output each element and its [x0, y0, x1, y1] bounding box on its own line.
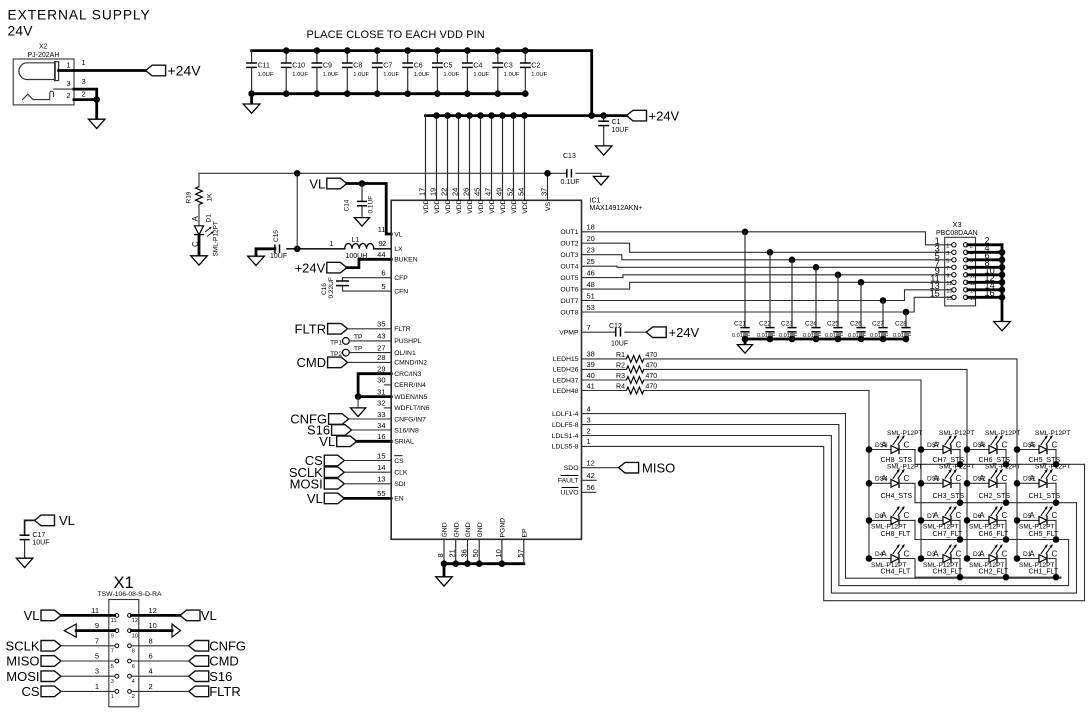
svg-text:21: 21: [448, 549, 457, 557]
capacitor C7: [372, 51, 400, 94]
pin label GND: [453, 522, 460, 537]
junction LED D3 anode: [918, 555, 925, 562]
capacitor C12: [609, 323, 646, 347]
pin label WDEN/IN5: [394, 394, 427, 401]
pin number 47: [484, 188, 493, 196]
wire X3 pin 10 to ground bus: [968, 273, 1002, 276]
pin number 11: [378, 225, 386, 234]
svg-text:C6: C6: [414, 63, 423, 70]
svg-text:42: 42: [587, 471, 595, 480]
svg-text:LEDH48: LEDH48: [553, 388, 579, 395]
svg-text:CMD: CMD: [209, 654, 239, 669]
ground IC: [436, 577, 453, 586]
svg-text:57: 57: [516, 549, 525, 557]
svg-text:A: A: [979, 511, 985, 520]
svg-text:C14: C14: [344, 199, 351, 211]
pin label CFN: [394, 288, 408, 295]
terminal +24V (VDD rail): [627, 108, 680, 123]
pin number 27: [377, 343, 385, 352]
pin label LEDH15: [553, 356, 579, 363]
wire VDD pin 17: [425, 116, 427, 201]
junction VDD rail: [521, 112, 528, 119]
svg-text:CFN: CFN: [394, 288, 408, 295]
label CH5_FLT: [1029, 531, 1060, 538]
svg-text:C26: C26: [850, 321, 862, 328]
svg-text:11: 11: [946, 281, 952, 287]
svg-text:+24V: +24V: [295, 260, 326, 275]
svg-text:CH1_STS: CH1_STS: [1029, 493, 1061, 500]
svg-text:C: C: [1052, 511, 1058, 520]
svg-text:4: 4: [132, 679, 135, 685]
pin number 7: [587, 323, 591, 332]
wire FLTR to IC: [348, 328, 392, 330]
svg-text:VDD: VDD: [423, 199, 430, 213]
off-page arrow left: [64, 624, 115, 637]
pin label VDD: [445, 199, 452, 213]
svg-text:C11: C11: [258, 63, 270, 70]
svg-text:14: 14: [377, 463, 385, 472]
svg-text:1: 1: [95, 682, 99, 691]
wire X1 pin 6: [131, 660, 188, 662]
terminal +24V (VPMP): [646, 325, 699, 340]
junction top bus: [344, 47, 351, 54]
capacitor C22: [757, 252, 776, 339]
pin number 32: [377, 399, 385, 408]
wire X2 pin2 to ground: [74, 100, 97, 120]
pin label VPMP: [559, 330, 579, 337]
connector X3 PBC08DAAN body: [936, 220, 978, 306]
svg-text:7: 7: [95, 636, 99, 645]
svg-text:LEDH26: LEDH26: [553, 367, 579, 374]
svg-text:A: A: [881, 549, 887, 558]
wire VDD pin 24: [458, 116, 460, 201]
wire LEDH to R4: [582, 390, 627, 392]
wire LED row 2 cathode bus: [915, 502, 1077, 504]
X3 pin 4: [964, 243, 990, 257]
junction bottom bus: [374, 90, 381, 97]
svg-text:L1: L1: [352, 237, 360, 244]
svg-text:31: 31: [377, 387, 385, 396]
svg-text:VDD: VDD: [478, 199, 485, 213]
X3 pin 10: [964, 266, 995, 280]
wire cap bus to ground: [744, 339, 747, 345]
svg-text:1.0UF: 1.0UF: [323, 72, 339, 78]
capacitor C15: [270, 230, 287, 261]
pin number 37: [540, 188, 549, 196]
X3 pin 5: [935, 251, 956, 265]
wire VL to IC: [344, 497, 391, 500]
junction OUT2 / C22: [767, 249, 774, 256]
capacitor C2: [520, 51, 548, 94]
junction LED cathode bus: [1053, 574, 1060, 581]
X1 pin 6: [128, 652, 153, 670]
svg-text:SML-P12PT: SML-P12PT: [985, 430, 1020, 437]
led D1 SML-P12PT: [191, 214, 220, 257]
junction LED cathode bus: [1053, 499, 1060, 506]
svg-text:13: 13: [946, 288, 952, 294]
svg-text:A: A: [1029, 440, 1035, 449]
wire OUT6 to X3 pin 11: [582, 282, 952, 289]
svg-text:CS: CS: [394, 458, 404, 465]
junction bottom bus: [404, 90, 411, 97]
X1 pin 9: [95, 621, 119, 639]
capacitor C3: [492, 51, 520, 94]
svg-text:47: 47: [484, 188, 493, 196]
pin label VS: [545, 201, 552, 211]
svg-text:11: 11: [378, 225, 386, 234]
svg-text:VPMP: VPMP: [559, 330, 579, 337]
wire SDO pin 12: [582, 467, 619, 469]
svg-text:8: 8: [132, 649, 135, 655]
svg-text:28: 28: [377, 353, 385, 362]
wire LDLS5-8 to LED row bus: [582, 446, 1085, 600]
pin label FAULT: [558, 476, 579, 485]
svg-text:24: 24: [451, 188, 460, 196]
junction OUT1 / C21: [742, 229, 749, 236]
svg-text:VS: VS: [545, 201, 552, 211]
svg-text:VDD: VDD: [489, 199, 496, 213]
terminal VL: [319, 434, 356, 449]
stub CERR/IN4: [384, 384, 391, 386]
wire OUT2 to X3 pin 3: [582, 243, 952, 252]
svg-text:VDD: VDD: [456, 199, 463, 213]
label CH6_STS: [979, 457, 1011, 464]
svg-text:A: A: [933, 549, 939, 558]
wire OUT8 to X3 pin 15: [582, 297, 952, 312]
svg-text:2: 2: [82, 90, 86, 99]
svg-text:SML-P12PT: SML-P12PT: [1035, 464, 1070, 471]
pin label VDD: [456, 199, 463, 213]
svg-text:7: 7: [111, 649, 114, 655]
pin label OL/IN1: [394, 350, 416, 357]
wire X1 pin 5: [61, 660, 115, 662]
led D4 SML-P12PT: [869, 545, 915, 578]
svg-text:30: 30: [377, 376, 385, 385]
pin number 30: [377, 376, 385, 385]
svg-text:10UF: 10UF: [32, 540, 49, 547]
svg-text:CNFG: CNFG: [209, 639, 246, 654]
svg-text:OUT3: OUT3: [560, 252, 578, 259]
wire VS pin 37: [547, 173, 549, 200]
junction LED D6 anode: [964, 517, 971, 524]
svg-text:6: 6: [132, 664, 135, 670]
label CH5_STS: [1029, 457, 1061, 464]
pin label CFP: [394, 275, 408, 282]
junction top bus: [464, 47, 471, 54]
pin number 6: [381, 269, 385, 278]
svg-text:OUT8: OUT8: [560, 309, 578, 316]
svg-text:A: A: [979, 440, 985, 449]
terminal SCLK (X1 pin 7): [6, 639, 61, 654]
svg-text:CH8_FLT: CH8_FLT: [881, 531, 912, 538]
svg-text:EXTERNAL SUPPLY: EXTERNAL SUPPLY: [8, 8, 151, 23]
svg-text:PBC08DAAN: PBC08DAAN: [936, 230, 978, 237]
pin number 38: [587, 350, 595, 359]
X3 pin 14: [964, 281, 995, 295]
svg-text:VL: VL: [319, 434, 335, 449]
svg-text:5: 5: [95, 652, 99, 661]
svg-text:R19: R19: [186, 191, 193, 203]
svg-text:C: C: [904, 440, 910, 449]
led DS7 SML-P12PT: [921, 430, 974, 464]
ground C13: [593, 176, 608, 185]
svg-text:1.0UF: 1.0UF: [353, 72, 369, 78]
svg-text:SML-P12PT: SML-P12PT: [939, 430, 974, 437]
svg-text:CMND/IN2: CMND/IN2: [394, 360, 427, 367]
wire CFN pin 5: [343, 286, 392, 292]
pin number 36: [460, 549, 469, 557]
svg-text:TP1: TP1: [330, 339, 342, 346]
wire LX node: [287, 248, 345, 250]
ground IN3/IN5: [351, 408, 366, 417]
stub WDFLT/IN6: [384, 407, 391, 409]
svg-text:2: 2: [66, 91, 70, 100]
pin number 43: [377, 332, 385, 341]
pin label SDI: [394, 481, 405, 488]
svg-text:C4: C4: [473, 63, 482, 70]
pin number 19: [429, 188, 438, 196]
wire R2 to LED column: [644, 369, 967, 558]
svg-text:C: C: [956, 440, 962, 449]
wire LEDH to R1: [582, 358, 627, 360]
svg-text:5: 5: [111, 664, 114, 670]
junction LED cathode bus: [957, 574, 964, 581]
svg-text:1: 1: [82, 58, 86, 67]
pin number 42: [587, 471, 595, 480]
wire OUT4 to X3 pin 7: [582, 266, 952, 267]
junction ground bus: [452, 560, 459, 567]
svg-text:OUT7: OUT7: [560, 298, 578, 305]
wire LDLS1-4 to LED row bus: [582, 436, 1077, 594]
resistor R19 1K: [186, 173, 214, 204]
svg-text:R4: R4: [616, 384, 625, 391]
junction LED D2 anode: [964, 555, 971, 562]
led DS8 SML-P12PT: [869, 430, 922, 464]
label CH7_FLT: [933, 531, 964, 538]
wire D1 cathode to ground: [198, 235, 201, 256]
svg-text:OUT2: OUT2: [560, 241, 578, 248]
svg-text:C17: C17: [32, 532, 45, 539]
junction LED DS1 anode: [1014, 480, 1021, 487]
led D8 SML-P12PT: [869, 506, 915, 539]
wire X3 pin 12 to ground bus: [968, 281, 1002, 284]
wire X2 pin3: [74, 89, 97, 100]
svg-text:A: A: [1029, 549, 1035, 558]
junction LED DS2 anode: [964, 480, 971, 487]
svg-text:C: C: [904, 549, 910, 558]
pin number 4: [587, 404, 591, 413]
svg-text:37: 37: [540, 188, 549, 196]
junction VDD rail: [455, 112, 462, 119]
svg-text:A: A: [881, 440, 887, 449]
svg-text:0.1UF: 0.1UF: [368, 196, 375, 214]
svg-text:PGND: PGND: [500, 518, 507, 538]
wire X1 pin 12: [131, 614, 180, 617]
label CH6_FLT: [979, 531, 1010, 538]
svg-text:C8: C8: [353, 63, 362, 70]
label CH8_STS: [881, 457, 913, 464]
svg-text:16: 16: [377, 432, 385, 441]
capacitor C14: [344, 184, 375, 218]
svg-text:TP: TP: [354, 346, 362, 353]
pin number 1: [587, 437, 591, 446]
wire R19 to D1: [198, 205, 200, 226]
svg-text:WDEN/IN5: WDEN/IN5: [394, 394, 427, 401]
svg-text:9: 9: [946, 273, 949, 279]
terminal VL (C17): [35, 513, 75, 528]
svg-text:44: 44: [377, 250, 385, 259]
terminal FLTR: [295, 322, 348, 337]
svg-text:C13: C13: [563, 153, 576, 160]
wire CFP pin 6: [343, 278, 392, 281]
svg-text:SML-P12PT: SML-P12PT: [1019, 524, 1054, 531]
wire GND pin 21: [455, 539, 457, 563]
pin number 40: [587, 371, 595, 380]
junction ground bus: [499, 560, 506, 567]
pin label OUT8: [560, 309, 578, 316]
svg-text:15: 15: [377, 451, 385, 460]
svg-text:32: 32: [377, 399, 385, 408]
junction LX node: [294, 246, 301, 253]
svg-text:1: 1: [946, 243, 949, 249]
wire X1 pin 7: [61, 645, 115, 647]
wire bank bottom bus to ground: [250, 94, 253, 104]
wire OUT1 to X3 pin 1: [582, 232, 952, 245]
svg-text:LX: LX: [394, 246, 403, 253]
label CH2_FLT: [979, 569, 1010, 576]
svg-text:0.1UF: 0.1UF: [561, 179, 580, 186]
svg-text:SML-P12PT: SML-P12PT: [213, 221, 220, 256]
pin number 17: [418, 188, 427, 196]
pin label GND: [442, 522, 449, 537]
junction X3 ground bus: [999, 294, 1006, 301]
svg-text:PJ-202AH: PJ-202AH: [28, 52, 60, 59]
svg-text:CRC/IN3: CRC/IN3: [394, 371, 421, 378]
pin number 10: [494, 549, 503, 557]
svg-text:48: 48: [587, 280, 595, 289]
svg-text:CH3_STS: CH3_STS: [933, 493, 965, 500]
ground C15: [248, 256, 265, 265]
junction LED D1 anode: [1014, 555, 1021, 562]
svg-text:12: 12: [149, 606, 157, 615]
led DS5 SML-P12PT: [1017, 430, 1070, 464]
junction VDD rail: [444, 112, 451, 119]
terminal MISO: [619, 460, 676, 475]
pin number 28: [377, 353, 385, 362]
wire X1 pin 8: [131, 645, 188, 647]
pin number 21: [448, 549, 457, 557]
svg-text:+24V: +24V: [669, 325, 700, 340]
wire VDD bank bottom bus: [252, 92, 526, 95]
svg-text:A: A: [1029, 474, 1035, 483]
pin number 13: [377, 475, 385, 484]
terminal CMD (X1 pin 6): [189, 654, 239, 669]
pin number 22: [440, 188, 449, 196]
X2 pin 1 label: [66, 58, 85, 69]
svg-text:A: A: [933, 440, 939, 449]
svg-text:LDLS1-4: LDLS1-4: [552, 433, 579, 440]
wire LEDH to R3: [582, 379, 627, 381]
junction LED cathode bus: [1003, 536, 1010, 543]
svg-text:8: 8: [436, 553, 445, 557]
svg-text:43: 43: [377, 332, 385, 341]
terminal S16 (X1 pin 4): [189, 669, 233, 684]
pin label PGND: [500, 518, 507, 538]
svg-text:C10: C10: [292, 63, 305, 70]
svg-text:VL: VL: [307, 491, 323, 506]
svg-text:OUT5: OUT5: [560, 275, 578, 282]
X3 pin 3: [935, 243, 956, 257]
svg-text:C27: C27: [872, 321, 884, 328]
svg-text:MAX14912AKN+: MAX14912AKN+: [590, 205, 643, 212]
capacitor C26: [848, 282, 867, 339]
svg-text:CS: CS: [21, 684, 39, 699]
pin number 20: [587, 234, 595, 243]
wire OUT3 to X3 pin 5: [582, 255, 952, 260]
resistor R1 470: [616, 352, 657, 362]
pin label LEDH48: [553, 388, 579, 395]
terminal FLTR (X1 pin 2): [189, 684, 241, 699]
svg-text:OUT1: OUT1: [560, 229, 578, 236]
X3 pin 16: [964, 288, 995, 302]
pin number 53: [587, 303, 595, 312]
svg-text:GND: GND: [442, 522, 449, 537]
junction bottom bus: [314, 90, 321, 97]
ground C1: [595, 146, 612, 155]
svg-text:LDLS5-8: LDLS5-8: [552, 444, 579, 451]
svg-text:C: C: [1052, 474, 1058, 483]
terminal MISO (X1 pin 5): [6, 654, 61, 669]
svg-text:55: 55: [377, 489, 385, 498]
junction X3 ground bus: [999, 279, 1006, 286]
svg-text:C: C: [956, 511, 962, 520]
wire VDD pin 19: [436, 116, 438, 201]
pin number 39: [587, 360, 595, 369]
led DS2 SML-P12PT: [967, 464, 1020, 503]
wire X1 pin 3: [61, 675, 115, 677]
svg-text:MISO: MISO: [642, 460, 675, 475]
svg-text:1.0UF: 1.0UF: [292, 72, 308, 78]
capacitor C8: [342, 51, 370, 94]
svg-text:SRIAL: SRIAL: [394, 439, 414, 446]
svg-text:36: 36: [460, 549, 469, 557]
svg-text:C5: C5: [443, 63, 452, 70]
svg-text:1.0UF: 1.0UF: [473, 72, 489, 78]
junction OUT5 / C25: [835, 272, 842, 279]
svg-text:C21: C21: [734, 321, 746, 328]
X1 pin 12: [128, 606, 157, 624]
svg-text:SML-P12PT: SML-P12PT: [1035, 430, 1070, 437]
svg-text:R1: R1: [616, 352, 625, 359]
ground output caps: [737, 345, 752, 354]
wire CMD to IC: [348, 361, 392, 363]
terminal VL (X1 pin 11): [24, 608, 61, 623]
junction cap bus: [858, 336, 865, 343]
svg-text:38: 38: [587, 350, 595, 359]
connector X2 PJ-202AH: [13, 44, 74, 105]
resistor R3 470: [616, 373, 657, 383]
pin label VDD: [489, 199, 496, 213]
svg-text:9: 9: [379, 239, 383, 248]
svg-text:C: C: [904, 511, 910, 520]
svg-text:R3: R3: [616, 373, 625, 380]
pin number 2: [587, 426, 591, 435]
wire X1 pin 1: [61, 690, 115, 692]
svg-text:OL/IN1: OL/IN1: [394, 350, 416, 357]
pin number 41: [587, 381, 595, 390]
junction ground bus: [441, 560, 448, 567]
svg-text:1.0UF: 1.0UF: [414, 72, 430, 78]
